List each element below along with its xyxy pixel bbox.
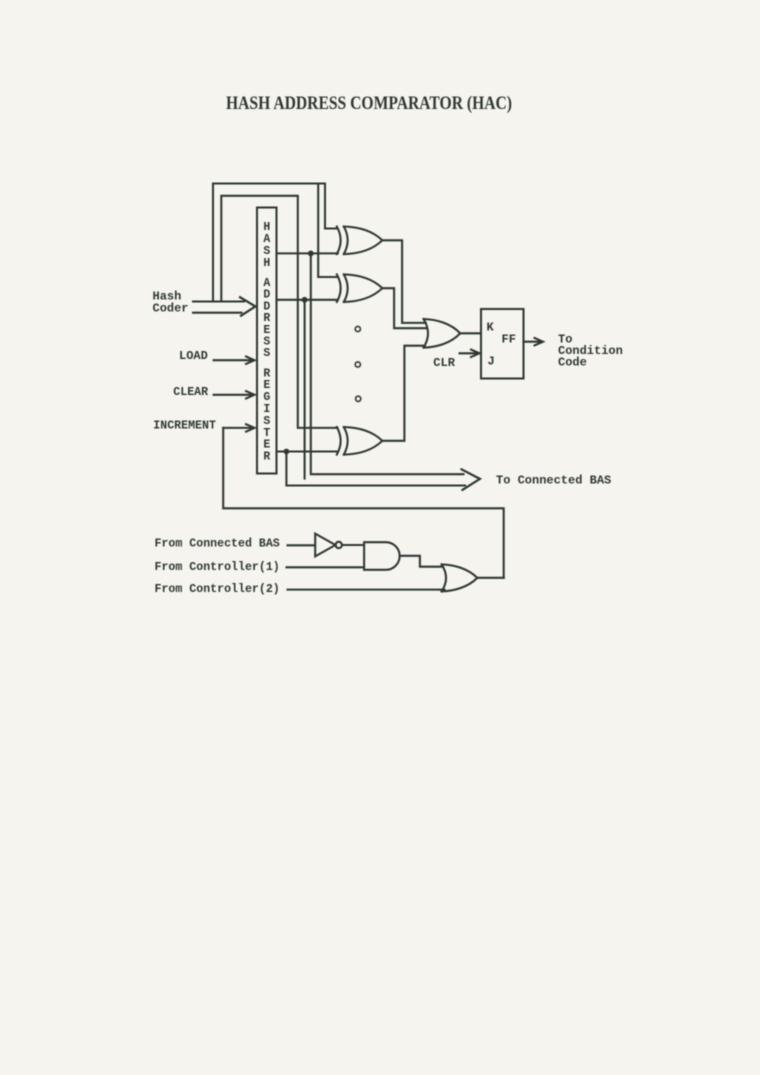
node junction bit2 xyxy=(302,297,308,303)
hash coder bus arrow xyxy=(193,302,244,313)
CLEAR arrow xyxy=(214,391,255,398)
wire bit2 riser (dangling end) xyxy=(304,300,306,479)
svg-text:S: S xyxy=(263,347,270,360)
xor gate X1 xyxy=(337,227,383,255)
flip-flop box FF xyxy=(481,309,524,379)
INCREMENT arrow xyxy=(223,424,254,431)
CLR arrow xyxy=(460,350,480,357)
wire from connected BAS to NOT xyxy=(288,544,316,546)
node junction bit1 xyxy=(308,251,314,257)
and gate A1 xyxy=(364,542,400,570)
ellipsis dots between XOR2 and XOR3 xyxy=(355,326,360,331)
svg-text:From Connected BAS: From Connected BAS xyxy=(155,537,280,550)
wire from controller1 to AND xyxy=(287,566,365,568)
register label letters xyxy=(263,221,270,464)
svg-text:To Connected BAS: To Connected BAS xyxy=(496,474,611,488)
svg-text:INCREMENT: INCREMENT xyxy=(153,420,216,433)
wire XOR2 output to OR1 xyxy=(382,288,426,328)
To Condition Code label xyxy=(558,332,623,369)
to connected BAS bus arrowhead xyxy=(462,469,480,490)
svg-text:Code: Code xyxy=(558,356,587,370)
wire NOT to AND xyxy=(342,544,364,546)
svg-text:CLR: CLR xyxy=(433,356,455,370)
wire XOR1 output to OR1 xyxy=(382,240,426,323)
svg-text:R: R xyxy=(263,451,270,464)
wire mid vertical to XOR2 xyxy=(318,184,337,277)
wire XOR3 output to OR1 xyxy=(382,346,425,441)
wire increment feedback loop from OR2 xyxy=(223,428,504,578)
or gate U1 xyxy=(424,319,461,348)
inverter NOT xyxy=(315,534,335,557)
svg-text:From Controller(2): From Controller(2) xyxy=(155,583,280,596)
svg-text:H: H xyxy=(263,257,270,270)
wire register bit line 3 xyxy=(277,450,338,452)
or gate U2 xyxy=(442,564,478,591)
wire register bit line 1 xyxy=(277,252,338,254)
wire from controller2 to OR2 xyxy=(288,589,445,591)
wire inner feedback loop to XOR3 xyxy=(221,196,337,428)
svg-text:FF: FF xyxy=(502,333,516,347)
svg-text:HASH ADDRESS COMPARATOR (HAC): HASH ADDRESS COMPARATOR (HAC) xyxy=(226,93,512,114)
node junction bit3 xyxy=(284,449,290,455)
wire OR1 output to FF xyxy=(460,332,481,334)
svg-text:LOAD: LOAD xyxy=(179,349,208,363)
wire outer feedback loop to XOR1 xyxy=(213,184,338,302)
xor gate X3 xyxy=(337,427,383,455)
svg-text:From Controller(1): From Controller(1) xyxy=(155,561,280,574)
wire bit1 riser down to To-Connected-BAS upper line xyxy=(311,253,464,474)
svg-text:J: J xyxy=(488,355,495,369)
Hash Coder label xyxy=(153,290,189,316)
svg-text:K: K xyxy=(487,321,495,335)
wire AND output to OR2 xyxy=(400,556,442,567)
register box HASH ADDRESS REGISTER xyxy=(257,208,277,474)
LOAD arrow xyxy=(214,357,255,364)
wire OR2 output xyxy=(477,577,503,579)
FF output arrow xyxy=(524,338,544,345)
svg-text:Coder: Coder xyxy=(153,302,189,316)
wire register bit line 2 xyxy=(277,299,338,301)
svg-text:CLEAR: CLEAR xyxy=(173,386,208,399)
wire bit3 riser down to To-Connected-BAS lower line xyxy=(286,452,465,486)
xor gate X2 xyxy=(337,274,383,302)
